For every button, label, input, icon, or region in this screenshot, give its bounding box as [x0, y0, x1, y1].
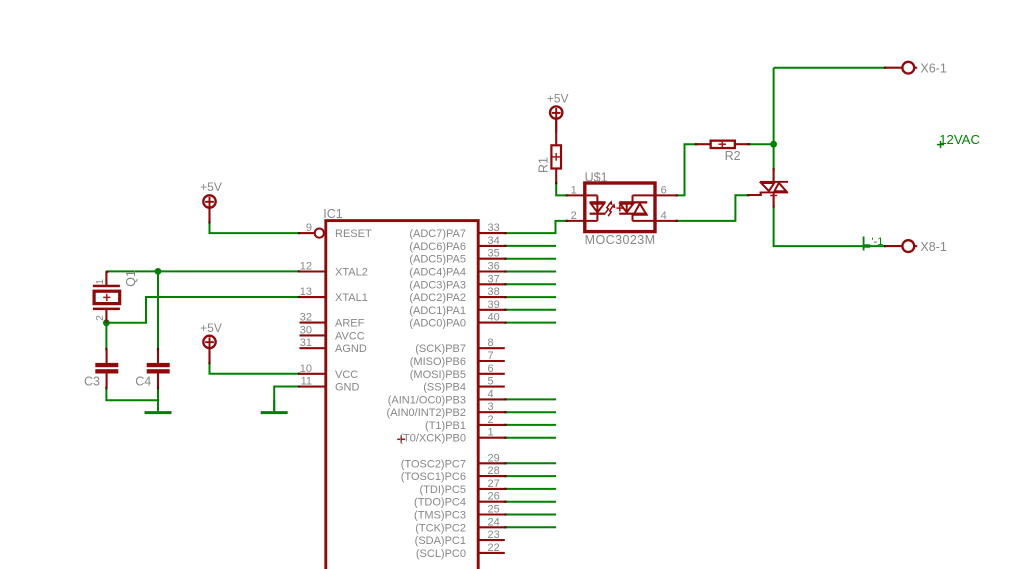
- svg-text:1: 1: [571, 184, 577, 196]
- svg-text:35: 35: [488, 248, 500, 260]
- IC1 pin 28 (TOSC1)PC6: [401, 465, 505, 483]
- svg-text:(AIN0/INT2)PB2: (AIN0/INT2)PB2: [387, 407, 466, 419]
- wire +5V to VCC pin 10: [210, 362, 300, 373]
- svg-text:(SDA)PC1: (SDA)PC1: [415, 535, 466, 547]
- IC1 origin cross: [397, 435, 405, 443]
- svg-text:(TOSC1)PC6: (TOSC1)PC6: [401, 471, 466, 483]
- IC1 pin 35 (ADC5)PA5: [409, 248, 504, 266]
- wire XTAL1 net (pin 13 to crystal pin 2): [106, 297, 299, 323]
- svg-text:(ADC0)PA0: (ADC0)PA0: [409, 318, 466, 330]
- wire PB2 stub net: [505, 411, 556, 413]
- svg-text:33: 33: [488, 222, 500, 234]
- IC1 pin 26 (TDO)PC4: [414, 491, 505, 509]
- svg-text:30: 30: [300, 324, 312, 336]
- svg-text:(TCK)PC2: (TCK)PC2: [415, 522, 466, 534]
- svg-text:(ADC3)PA3: (ADC3)PA3: [409, 279, 466, 291]
- svg-text:(AIN1/OC0)PB3: (AIN1/OC0)PB3: [388, 394, 466, 406]
- junction at crystal pin 2 / C3: [103, 319, 110, 326]
- svg-text:(TMS)PC3: (TMS)PC3: [414, 510, 466, 522]
- wire U$1 pin 4 to triac gate: [676, 195, 749, 221]
- +5V supply at R1: [547, 91, 569, 132]
- svg-text:(SCK)PB7: (SCK)PB7: [415, 343, 466, 355]
- wire X6-1 net vertical: [773, 68, 775, 169]
- IC1 pin 24 (TCK)PC2: [415, 516, 505, 534]
- svg-text:(MISO)PB6: (MISO)PB6: [410, 356, 466, 368]
- svg-text:22: 22: [488, 542, 500, 554]
- svg-text:(ADC6)PA6: (ADC6)PA6: [409, 241, 466, 253]
- junction R2 / triac / X6-1: [770, 141, 777, 148]
- svg-text:+5V: +5V: [200, 180, 222, 194]
- svg-text:AVCC: AVCC: [335, 330, 365, 342]
- IC1 pin 23 (SDA)PC1: [415, 529, 505, 547]
- svg-text:MOC3023M: MOC3023M: [585, 233, 656, 247]
- IC1 pin 1 (T0/XCK)PB0: [399, 427, 504, 445]
- svg-text:25: 25: [488, 504, 500, 516]
- svg-text:GND: GND: [335, 382, 360, 394]
- wire PA1 stub net: [505, 309, 556, 311]
- wire PA3 stub net: [505, 283, 556, 285]
- resistor R1: [551, 119, 561, 182]
- svg-text:5: 5: [488, 376, 494, 388]
- wire C3 bottom to C4/gnd net: [106, 387, 158, 400]
- svg-text:4: 4: [661, 210, 667, 222]
- svg-text:VCC: VCC: [335, 369, 358, 381]
- ground symbol under C4: [145, 400, 172, 412]
- svg-text:26: 26: [488, 491, 500, 503]
- svg-text:AGND: AGND: [335, 343, 367, 355]
- IC1 pin 7 (MISO)PB6: [410, 350, 505, 368]
- svg-text:4: 4: [488, 388, 494, 400]
- IC1 pin 12 XTAL2: [300, 261, 368, 279]
- svg-text:+5V: +5V: [547, 91, 569, 105]
- svg-text:IC1: IC1: [323, 207, 343, 221]
- svg-text:6: 6: [488, 363, 494, 375]
- svg-text:23: 23: [488, 529, 500, 541]
- svg-text:32: 32: [300, 312, 312, 324]
- IC1 pin 22 (SCL)PC0: [416, 542, 505, 560]
- svg-text:(MOSI)PB5: (MOSI)PB5: [410, 369, 466, 381]
- net label L-1 on X8-1 wire: [863, 236, 884, 250]
- svg-text:R1: R1: [537, 157, 551, 173]
- svg-text:XTAL1: XTAL1: [335, 292, 368, 304]
- IC1 pin 37 (ADC3)PA3: [409, 273, 504, 291]
- svg-text:12: 12: [300, 261, 312, 273]
- net label 12VAC: [937, 132, 981, 148]
- svg-text:(ADC7)PA7: (ADC7)PA7: [409, 228, 466, 240]
- +5V supply at RESET: [200, 180, 222, 222]
- svg-text:34: 34: [488, 235, 500, 247]
- svg-text:(TDO)PC4: (TDO)PC4: [414, 497, 466, 509]
- svg-text:(ADC5)PA5: (ADC5)PA5: [409, 254, 466, 266]
- IC1 pin 11 GND: [300, 376, 360, 394]
- wire PA4 stub net: [505, 271, 556, 273]
- IC1 pin 27 (TDI)PC5: [420, 478, 505, 496]
- wire PB1 stub net: [505, 424, 556, 426]
- svg-text:36: 36: [488, 261, 500, 273]
- svg-text:C4: C4: [135, 374, 151, 388]
- wire PA2 stub net: [505, 296, 556, 298]
- svg-text:24: 24: [488, 516, 500, 528]
- connector pin X6-1: [886, 62, 918, 74]
- wire PA6 stub net: [505, 245, 556, 247]
- svg-text:(T1)PB1: (T1)PB1: [425, 420, 466, 432]
- capacitor C3: [95, 350, 118, 388]
- wire PC4 stub net: [505, 501, 556, 503]
- wire XTAL2 net (pin 12 to crystal pin 1): [106, 270, 299, 272]
- IC1 pin 39 (ADC1)PA1: [409, 299, 504, 317]
- wire GND pin 11 to ground: [274, 387, 299, 412]
- svg-text:6: 6: [661, 184, 667, 196]
- svg-text:(TDI)PC5: (TDI)PC5: [420, 484, 466, 496]
- ground symbol for IC GND: [261, 400, 288, 413]
- svg-text:Q1: Q1: [124, 270, 138, 287]
- IC1 pin 10 VCC: [300, 363, 359, 381]
- svg-text:(SS)PB4: (SS)PB4: [423, 382, 466, 394]
- IC1 pin 2 (T1)PB1: [425, 414, 505, 432]
- IC1 pin 38 (ADC2)PA2: [409, 286, 504, 304]
- wire PC2 stub net: [505, 526, 556, 528]
- svg-text:39: 39: [488, 299, 500, 311]
- svg-text:U$1: U$1: [585, 170, 608, 184]
- wire U$1 pin 6 up to R2 left: [676, 144, 697, 195]
- IC1 pin 6 (MOSI)PB5: [410, 363, 505, 381]
- capacitor C4: [147, 350, 170, 388]
- svg-text:9: 9: [306, 222, 312, 234]
- optocoupler U$1 MOC3023M: [567, 183, 676, 232]
- svg-text:1: 1: [95, 279, 106, 285]
- svg-text:(ADC1)PA1: (ADC1)PA1: [409, 305, 466, 317]
- IC1 pin 34 (ADC6)PA6: [409, 235, 504, 253]
- svg-text:R2: R2: [725, 149, 741, 163]
- svg-text:(TOSC2)PC7: (TOSC2)PC7: [401, 458, 466, 470]
- svg-text:RESET: RESET: [335, 228, 372, 240]
- svg-text:37: 37: [488, 273, 500, 285]
- svg-text:3: 3: [488, 401, 494, 413]
- wire R2 right to junction: [748, 143, 773, 145]
- wire PC7 stub net: [505, 462, 556, 464]
- svg-text:X8-1: X8-1: [920, 240, 946, 254]
- wire crystal pin2 down to C3: [105, 323, 107, 350]
- wire PA5 stub net: [505, 258, 556, 260]
- crystal Q1: [93, 271, 120, 322]
- wire PB0 stub net: [505, 437, 556, 439]
- wire junction down to C4: [157, 271, 159, 349]
- wire PA7 pin 33 to U$1 pin 2: [505, 221, 568, 233]
- svg-text:(ADC2)PA2: (ADC2)PA2: [409, 292, 466, 304]
- wire +5V to RESET pin 9: [210, 222, 300, 234]
- svg-text:AREF: AREF: [335, 318, 365, 330]
- svg-text:X6-1: X6-1: [920, 62, 946, 76]
- IC1 pin 3 (AIN0/INT2)PB2: [387, 401, 505, 419]
- IC1 pin 13 XTAL1: [300, 286, 368, 304]
- svg-text:2: 2: [571, 210, 577, 222]
- resistor R2: [696, 140, 748, 148]
- connector pin X8-1: [886, 240, 918, 252]
- svg-text:8: 8: [488, 337, 494, 349]
- junction on XTAL2 net above C4: [155, 268, 162, 275]
- svg-text:13: 13: [300, 286, 312, 298]
- triac: [749, 169, 789, 208]
- IC1 pin 30 AVCC: [300, 324, 365, 342]
- IC IC1 box (microcontroller): [326, 221, 478, 569]
- wire PC5 stub net: [505, 488, 556, 490]
- svg-text:(T0/XCK)PB0: (T0/XCK)PB0: [399, 433, 466, 445]
- svg-text:XTAL2: XTAL2: [335, 267, 368, 279]
- svg-text:7: 7: [488, 350, 494, 362]
- svg-text:12VAC: 12VAC: [939, 132, 980, 147]
- IC1 pin 25 (TMS)PC3: [414, 504, 505, 522]
- IC1 pin 40 (ADC0)PA0: [409, 312, 504, 330]
- IC1 pin 33 (ADC7)PA7: [409, 222, 504, 240]
- svg-text:40: 40: [488, 312, 500, 324]
- svg-text:31: 31: [300, 337, 312, 349]
- svg-text:11: 11: [301, 376, 312, 388]
- wire R1 bottom to U$1 pin 1: [556, 182, 567, 195]
- wire to X6-1: [774, 67, 886, 69]
- wire PB3 stub net: [505, 398, 556, 400]
- svg-text:38: 38: [488, 286, 500, 298]
- svg-text:(ADC4)PA4: (ADC4)PA4: [409, 267, 466, 279]
- IC1 pin 4 (AIN1/OC0)PB3: [388, 388, 505, 406]
- IC1 pin 31 AGND: [300, 337, 367, 355]
- svg-text:10: 10: [300, 363, 312, 375]
- IC1 pin 29 (TOSC2)PC7: [401, 452, 505, 470]
- svg-text:2: 2: [95, 315, 106, 321]
- +5V supply at VCC: [200, 321, 222, 362]
- wire PC3 stub net: [505, 514, 556, 516]
- wire PC6 stub net: [505, 475, 556, 477]
- svg-text:'-1: '-1: [872, 236, 884, 248]
- svg-text:+5V: +5V: [200, 321, 222, 335]
- wire PA0 stub net: [505, 322, 556, 324]
- wire C4 bottom to ground: [157, 387, 159, 411]
- IC1 pin 9 RESET: [300, 222, 372, 240]
- svg-text:2: 2: [488, 414, 494, 426]
- svg-text:C3: C3: [84, 374, 100, 388]
- IC1 pin 8 (SCK)PB7: [415, 337, 505, 355]
- IC1 pin 5 (SS)PB4: [423, 376, 505, 394]
- IC1 pin 32 AREF: [300, 312, 365, 330]
- wire triac bottom to X8-1: [774, 207, 886, 246]
- svg-text:27: 27: [488, 478, 500, 490]
- IC1 pin 36 (ADC4)PA4: [409, 261, 504, 279]
- svg-text:1: 1: [488, 427, 494, 439]
- svg-text:28: 28: [488, 465, 500, 477]
- svg-text:(SCL)PC0: (SCL)PC0: [416, 548, 466, 560]
- svg-text:29: 29: [488, 452, 500, 464]
